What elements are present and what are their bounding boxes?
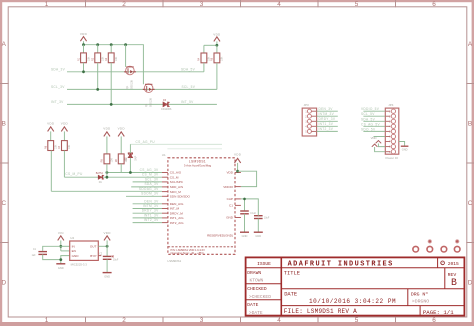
svg-text:VDD: VDD — [80, 32, 88, 36]
svg-text:INT1_A/G: INT1_A/G — [170, 216, 184, 220]
power VDD arrow P5 — [103, 127, 111, 137]
svg-text:SCL_3V: SCL_3V — [51, 85, 65, 89]
node SCL junction — [96, 88, 99, 91]
transistor Q2 — [143, 84, 155, 107]
pin 16 GND — [226, 216, 241, 220]
wire JP3 net 4 — [317, 125, 338, 127]
connector JP4 — [385, 103, 399, 160]
svg-text:1: 1 — [45, 317, 49, 324]
svg-text:B: B — [2, 121, 6, 128]
svg-text:INT1_3V: INT1_3V — [144, 213, 159, 217]
svg-text:CS_A/G: CS_A/G — [170, 171, 182, 175]
capacitor C3 — [240, 211, 256, 215]
power VDD arrow P4 — [61, 122, 69, 132]
svg-text:3: 3 — [200, 1, 204, 8]
svg-text:CS_M_3V: CS_M_3V — [142, 173, 159, 177]
svg-text:DRAWN: DRAWN — [247, 270, 261, 276]
svg-text:SDA_5V: SDA_5V — [361, 117, 376, 121]
node R8 pin1 junction — [106, 171, 109, 174]
wire VDDIO loop — [238, 171, 257, 186]
svg-text:VDD: VDD — [103, 231, 111, 235]
svg-text:OUT: OUT — [90, 245, 97, 249]
svg-text:10/10/2016 3:04:22 PM: 10/10/2016 3:04:22 PM — [309, 298, 396, 305]
power VIN arrow — [58, 231, 64, 240]
node INT junction — [110, 103, 113, 106]
pin 5 SDO_A/G — [162, 190, 181, 194]
wire SDOM_3V to pin6 — [126, 195, 162, 197]
resistor R1 — [77, 45, 90, 72]
svg-text:BYP: BYP — [90, 254, 96, 258]
wire CS_AG_3V to pin1 — [107, 164, 162, 173]
node VIN junction — [59, 245, 62, 248]
node D2 junction — [129, 171, 132, 174]
svg-text:D: D — [1, 280, 6, 287]
pin JP4-4 — [385, 124, 395, 128]
power VDD arrow JP4a — [376, 141, 386, 147]
wire EN — [61, 250, 70, 252]
diode D3 — [161, 99, 172, 111]
title block — [246, 257, 465, 316]
wire VDD out drop — [106, 240, 108, 256]
wire DRDY_3V stub — [133, 212, 162, 214]
ground GND regulator — [56, 264, 65, 270]
power VDD arrow P6 — [118, 127, 126, 137]
svg-text:INT_5V: INT_5V — [181, 100, 194, 104]
svg-text:SDD_A/S: SDD_A/S — [170, 185, 183, 189]
svg-text:CAP: CAP — [227, 197, 233, 201]
wire C2 to ground — [106, 259, 108, 272]
svg-text:INTM_3V: INTM_3V — [319, 112, 335, 116]
svg-text:ADAFRUIT INDUSTRIES: ADAFRUIT INDUSTRIES — [288, 260, 394, 268]
node rail junction 1 — [82, 43, 85, 46]
wire D2 to pin1 — [129, 158, 131, 173]
svg-text:SDA_3V: SDA_3V — [51, 67, 66, 71]
svg-text:C1: C1 — [229, 204, 233, 208]
node rail2 junction — [216, 44, 219, 47]
svg-text:3: 3 — [200, 317, 204, 324]
pin 13 VDDIO — [223, 185, 241, 189]
pin JP3-1 — [307, 109, 316, 113]
pin 2 CS_M — [162, 175, 179, 179]
wire OUT — [98, 245, 107, 247]
svg-text:VDD: VDD — [234, 152, 242, 156]
svg-text:INT_M: INT_M — [170, 207, 180, 211]
svg-text:DEN_3V: DEN_3V — [319, 107, 334, 111]
pin JP4-7 — [385, 139, 395, 143]
node rail junction 4 — [124, 43, 127, 46]
pin 6 SDO_M — [162, 195, 191, 199]
pin JP4-2 — [385, 114, 395, 118]
svg-text:>CHECKED: >CHECKED — [249, 294, 271, 300]
svg-text:B: B — [451, 277, 457, 288]
connector JP3 — [302, 103, 316, 136]
svg-text:4: 4 — [277, 317, 281, 324]
svg-text:LSM9DS1: LSM9DS1 — [189, 159, 206, 163]
svg-text:SCL_5V: SCL_5V — [182, 85, 196, 89]
wire VDD rail — [84, 45, 144, 85]
wire SDOAG_3V to pin5 — [51, 151, 162, 192]
wire R8 drop — [106, 164, 108, 177]
svg-text:GND: GND — [226, 216, 234, 220]
svg-text:DRG Nº: DRG Nº — [411, 292, 428, 298]
svg-text:PAGE: 1/1: PAGE: 1/1 — [423, 309, 454, 316]
pin JP3-4 — [307, 124, 316, 128]
svg-text:10K: 10K — [68, 144, 71, 149]
JP3 pin numbers — [305, 111, 307, 133]
node VDD junction — [236, 170, 239, 173]
transistor Q1 — [124, 66, 136, 89]
wire DEN_3V stub — [133, 203, 162, 205]
pin JP3-2 — [307, 114, 316, 118]
pin JP4-8 — [385, 144, 395, 148]
pin 14 CAP — [227, 197, 241, 201]
svg-text:LSM9DS1: LSM9DS1 — [168, 259, 182, 263]
mounting hole H3 — [441, 246, 447, 252]
svg-text:DRDY_3V: DRDY_3V — [319, 117, 336, 121]
svg-text:2: 2 — [122, 1, 126, 8]
svg-text:5: 5 — [355, 317, 359, 324]
svg-text:FILE: LSM9DS1 REV A: FILE: LSM9DS1 REV A — [284, 308, 357, 315]
power VDD arrow P8 — [103, 231, 111, 240]
resistor R3 — [105, 45, 118, 105]
pin 15 C1 — [229, 204, 241, 208]
power VDD arrow P7 — [234, 152, 242, 163]
svg-text:SDO_M: SDO_M — [170, 190, 181, 194]
node CAP junction — [243, 198, 246, 201]
op-amp U1 LSM9DS1 box — [162, 153, 235, 263]
wire JP4 net 6 — [374, 136, 386, 138]
svg-text:VDD: VDD — [371, 136, 377, 140]
svg-text:10K: 10K — [111, 158, 114, 163]
svg-text:GND: GND — [72, 254, 80, 258]
svg-text:0.1uF: 0.1uF — [250, 213, 256, 215]
svg-text:VDD: VDD — [118, 127, 126, 131]
svg-text:JP3: JP3 — [304, 103, 310, 107]
op-amp U2 MIC5225 — [70, 236, 99, 266]
pin JP4-3 — [385, 119, 395, 123]
pin JP4-1 — [385, 109, 395, 113]
pin JP4-9 — [385, 150, 395, 154]
svg-text:VDD: VDD — [213, 32, 221, 36]
svg-text:A: A — [2, 41, 7, 48]
wire INTM_3V stub — [133, 208, 162, 210]
wire C4 to ground — [257, 219, 259, 232]
svg-text:CS_AG_5V: CS_AG_5V — [361, 122, 380, 126]
svg-text:10K: 10K — [115, 56, 118, 61]
svg-text:>DATE: >DATE — [249, 310, 263, 316]
wire CS_AG_PU — [130, 144, 222, 153]
power VDD arrow P2 — [213, 32, 221, 41]
svg-text:IN: IN — [72, 245, 75, 249]
svg-text:MIC5225-3.3: MIC5225-3.3 — [71, 262, 88, 266]
svg-text:DEN_3V: DEN_3V — [144, 199, 159, 203]
capacitor C4 — [254, 213, 270, 220]
svg-text:CHECKED: CHECKED — [247, 286, 267, 292]
power VDD arrow P1 — [80, 32, 88, 41]
svg-text:GND: GND — [104, 275, 110, 279]
svg-text:2: 2 — [122, 317, 126, 324]
JP4 pin numbers — [389, 111, 391, 154]
diode D1 — [96, 172, 104, 184]
node rail junction 2 — [96, 43, 99, 46]
svg-text:DATE: DATE — [247, 302, 258, 308]
wire CS_M_PU to pin2 — [64, 151, 162, 178]
svg-text:1uF: 1uF — [32, 255, 37, 257]
svg-text:SCL/SPC: SCL/SPC — [170, 180, 184, 184]
wire INT — [67, 103, 217, 105]
svg-text:INT2_3V: INT2_3V — [144, 218, 159, 222]
pin 11 INT2_A/G — [162, 221, 184, 225]
svg-text:KTOWN: KTOWN — [250, 278, 264, 284]
svg-text:CS_AG_3V: CS_AG_3V — [140, 168, 159, 172]
svg-text:SDA_3V: SDA_3V — [144, 182, 159, 186]
wire JP4 net 1 — [363, 110, 385, 112]
svg-text:>DRGNO: >DRGNO — [412, 298, 429, 304]
svg-text:VDDIO: VDDIO — [223, 185, 233, 189]
resistor R5 — [211, 45, 224, 89]
wire JP4 net 2 — [363, 115, 385, 117]
svg-text:ISSUE: ISSUE — [257, 261, 271, 267]
capacitor C1 — [32, 249, 47, 257]
svg-text:C: C — [468, 200, 473, 207]
svg-text:10uF: 10uF — [113, 260, 119, 262]
ground GND JP4 — [401, 146, 409, 151]
svg-text:SDO_5V: SDO_5V — [361, 127, 376, 131]
wire VDD rail 2 — [204, 41, 217, 45]
wire VDD rail lead — [83, 41, 85, 45]
wire SDA_3V to pin4 — [131, 186, 162, 188]
svg-text:SCL_3V: SCL_3V — [145, 177, 159, 181]
pin JP3-5 — [307, 129, 316, 133]
resistor R8 — [101, 136, 114, 163]
fiducial FID1 — [428, 240, 431, 243]
wire SCL_3V to pin3 — [133, 181, 162, 183]
wire Q1 gate drop — [125, 45, 127, 67]
wire JP4 net 4 — [363, 125, 385, 127]
wire C1 to C3 — [244, 199, 246, 211]
diode D2 DNP — [124, 153, 137, 161]
svg-text:CS_AG_PU: CS_AG_PU — [136, 140, 156, 144]
svg-text:CD1206S: CD1206S — [161, 108, 172, 111]
resistor R2 — [92, 45, 105, 90]
wire SDA — [67, 71, 204, 73]
svg-text:INT2_A/G: INT2_A/G — [170, 221, 184, 225]
mounting hole H4 — [454, 246, 460, 252]
node R8 junction — [106, 176, 109, 179]
svg-text:10K: 10K — [55, 144, 58, 149]
svg-text:CS_M_PU: CS_M_PU — [65, 172, 83, 176]
pin 10 INT1_A/G — [162, 216, 184, 220]
svg-text:B: B — [468, 121, 472, 128]
svg-text:U1: U1 — [162, 153, 166, 157]
svg-text:SDA_5V: SDA_5V — [181, 67, 196, 71]
svg-text:GND: GND — [402, 147, 408, 151]
wire JP3 net 1 — [317, 110, 338, 112]
svg-text:2015: 2015 — [448, 261, 459, 267]
ground GND C3 — [240, 232, 249, 238]
wire cap C1 branch — [43, 246, 61, 251]
svg-text:BSS138: BSS138 — [131, 80, 134, 89]
svg-text:D: D — [468, 280, 473, 287]
svg-text:DRDY_M: DRDY_M — [170, 211, 183, 215]
power VDD arrow P3 — [47, 122, 55, 132]
svg-text:C: C — [1, 200, 6, 207]
ground GND C4 — [254, 232, 263, 238]
resistor R6 — [45, 131, 58, 150]
svg-text:EN: EN — [72, 249, 76, 253]
fiducial FID2 — [456, 240, 459, 243]
pin 4 SDI/SDA — [162, 185, 183, 189]
svg-text:6: 6 — [432, 1, 436, 8]
resistor R7 — [58, 131, 71, 150]
svg-text:INTM_3V: INTM_3V — [143, 204, 159, 208]
svg-text:SDN SDI/SDO: SDN SDI/SDO — [170, 195, 191, 199]
wire INT2_3V stub — [133, 222, 162, 224]
svg-text:U2: U2 — [70, 236, 74, 240]
svg-text:JP4: JP4 — [388, 103, 394, 107]
svg-text:6: 6 — [432, 317, 436, 324]
svg-text:A: A — [468, 41, 473, 48]
svg-text:BAT54: BAT54 — [96, 172, 104, 175]
svg-text:DNP: DNP — [134, 155, 137, 160]
svg-text:SCL_5V: SCL_5V — [361, 112, 375, 116]
pin BYP stub — [98, 255, 101, 257]
svg-text:VDD: VDD — [61, 122, 69, 126]
pin JP3-3 — [307, 119, 316, 123]
svg-text:VDD: VDD — [226, 171, 233, 175]
mounting hole H1 — [413, 246, 419, 252]
svg-text:RESERVED(GND): RESERVED(GND) — [207, 233, 233, 237]
wire SCL — [67, 88, 217, 90]
resistor R4 — [198, 45, 211, 72]
svg-text:INT1_3V: INT1_3V — [319, 122, 334, 126]
resistor R9 — [115, 136, 128, 163]
wire JP4 gnd — [399, 142, 405, 146]
svg-text:GND: GND — [255, 234, 261, 238]
svg-text:INT2_3V: INT2_3V — [319, 127, 334, 131]
wire INT1_3V stub — [133, 217, 162, 219]
svg-text:1: 1 — [45, 1, 49, 8]
node VDD out junction — [106, 245, 109, 248]
mounting hole H2 — [427, 246, 433, 252]
wire VIN drop — [60, 240, 62, 251]
wire JP3 net 5 — [317, 130, 338, 132]
wire JP3 net 3 — [317, 120, 338, 122]
wire cap C1 to gnd rail — [43, 254, 61, 259]
svg-text:DATE: DATE — [284, 292, 297, 298]
svg-text:4: 4 — [277, 1, 281, 8]
wire JP3 net 2 — [317, 115, 338, 117]
pin 3 SCL/SPC — [162, 180, 184, 184]
svg-text:10uF: 10uF — [264, 218, 270, 220]
ground GND C2 — [103, 273, 112, 279]
svg-text:5: 5 — [355, 1, 359, 8]
svg-text:SDOAG_3V: SDOAG_3V — [139, 187, 159, 191]
svg-text:GND: GND — [58, 266, 64, 270]
wire C3 to ground — [244, 214, 246, 232]
svg-text:VIN: VIN — [58, 231, 64, 235]
wire CS_M_PU stub right — [167, 148, 222, 150]
node SDA junction — [82, 70, 85, 73]
pin JP4-6 — [385, 134, 395, 138]
wire CAP to C4 — [241, 199, 258, 213]
node rail junction 3 — [110, 43, 113, 46]
node gnd junction — [59, 258, 62, 261]
svg-text:Power IO: Power IO — [386, 156, 399, 160]
svg-text:SDOM_3V: SDOM_3V — [141, 192, 159, 196]
wire GND pin — [61, 256, 70, 264]
wire JP4 net 3 — [363, 120, 385, 122]
svg-text:BSS138: BSS138 — [149, 98, 152, 107]
pin 8 INT_M — [162, 207, 180, 211]
pin 1 CS_A/G — [162, 171, 182, 175]
capacitor C2 — [99, 253, 119, 261]
svg-text:DEN_A/G: DEN_A/G — [170, 202, 184, 206]
svg-text:Operating Temp: -40 ~ +85'C: Operating Temp: -40 ~ +85'C — [171, 251, 204, 255]
svg-text:10K: 10K — [221, 56, 224, 61]
svg-text:VDD: VDD — [47, 122, 55, 126]
svg-text:VDD: VDD — [103, 127, 111, 131]
svg-text:GND: GND — [242, 234, 248, 238]
svg-text:DRDY_3V: DRDY_3V — [142, 209, 159, 213]
pin 9 DRDY_M — [162, 211, 183, 215]
pin 12 VDD — [226, 171, 240, 175]
wire IN — [61, 245, 70, 247]
svg-text:CS_M: CS_M — [170, 175, 179, 179]
wire JP4 net 5 — [363, 130, 385, 132]
wire VDD pin — [237, 163, 239, 173]
svg-text:10K: 10K — [87, 56, 90, 61]
svg-text:TITLE: TITLE — [284, 271, 300, 277]
svg-text:3-Axis Accel/Gyro/Mag: 3-Axis Accel/Gyro/Mag — [184, 164, 212, 168]
svg-text:VDDIO_5V: VDDIO_5V — [361, 107, 380, 111]
pin 7 DEN_A/G — [162, 202, 184, 206]
power VDD arrow JP4b — [372, 144, 386, 152]
pin JP4-5 — [385, 129, 395, 133]
svg-text:INT_3V: INT_3V — [51, 100, 64, 104]
